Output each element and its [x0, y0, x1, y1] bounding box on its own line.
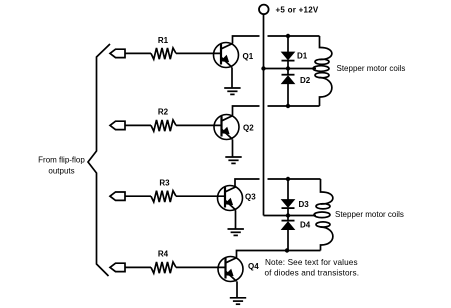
svg-text:Note: See text for values: Note: See text for values — [265, 258, 358, 267]
svg-text:D1: D1 — [297, 52, 308, 61]
svg-text:From flip-flop: From flip-flop — [38, 156, 85, 165]
svg-text:Q1: Q1 — [243, 52, 254, 61]
svg-text:of diodes and transistors.: of diodes and transistors. — [265, 269, 360, 278]
svg-text:Stepper motor coils: Stepper motor coils — [337, 64, 406, 73]
svg-text:R4: R4 — [158, 249, 169, 258]
svg-text:+5 or +12V: +5 or +12V — [276, 6, 319, 15]
svg-text:R2: R2 — [158, 108, 169, 117]
svg-text:D2: D2 — [300, 76, 311, 85]
svg-text:Stepper motor coils: Stepper motor coils — [335, 210, 404, 219]
svg-text:Q3: Q3 — [245, 193, 256, 202]
svg-text:R1: R1 — [158, 36, 169, 45]
svg-text:Q2: Q2 — [243, 124, 254, 133]
svg-text:D3: D3 — [299, 200, 310, 209]
svg-text:Q4: Q4 — [248, 262, 259, 271]
svg-text:R3: R3 — [159, 179, 170, 188]
svg-text:D4: D4 — [300, 220, 311, 229]
svg-text:outputs: outputs — [48, 167, 74, 176]
